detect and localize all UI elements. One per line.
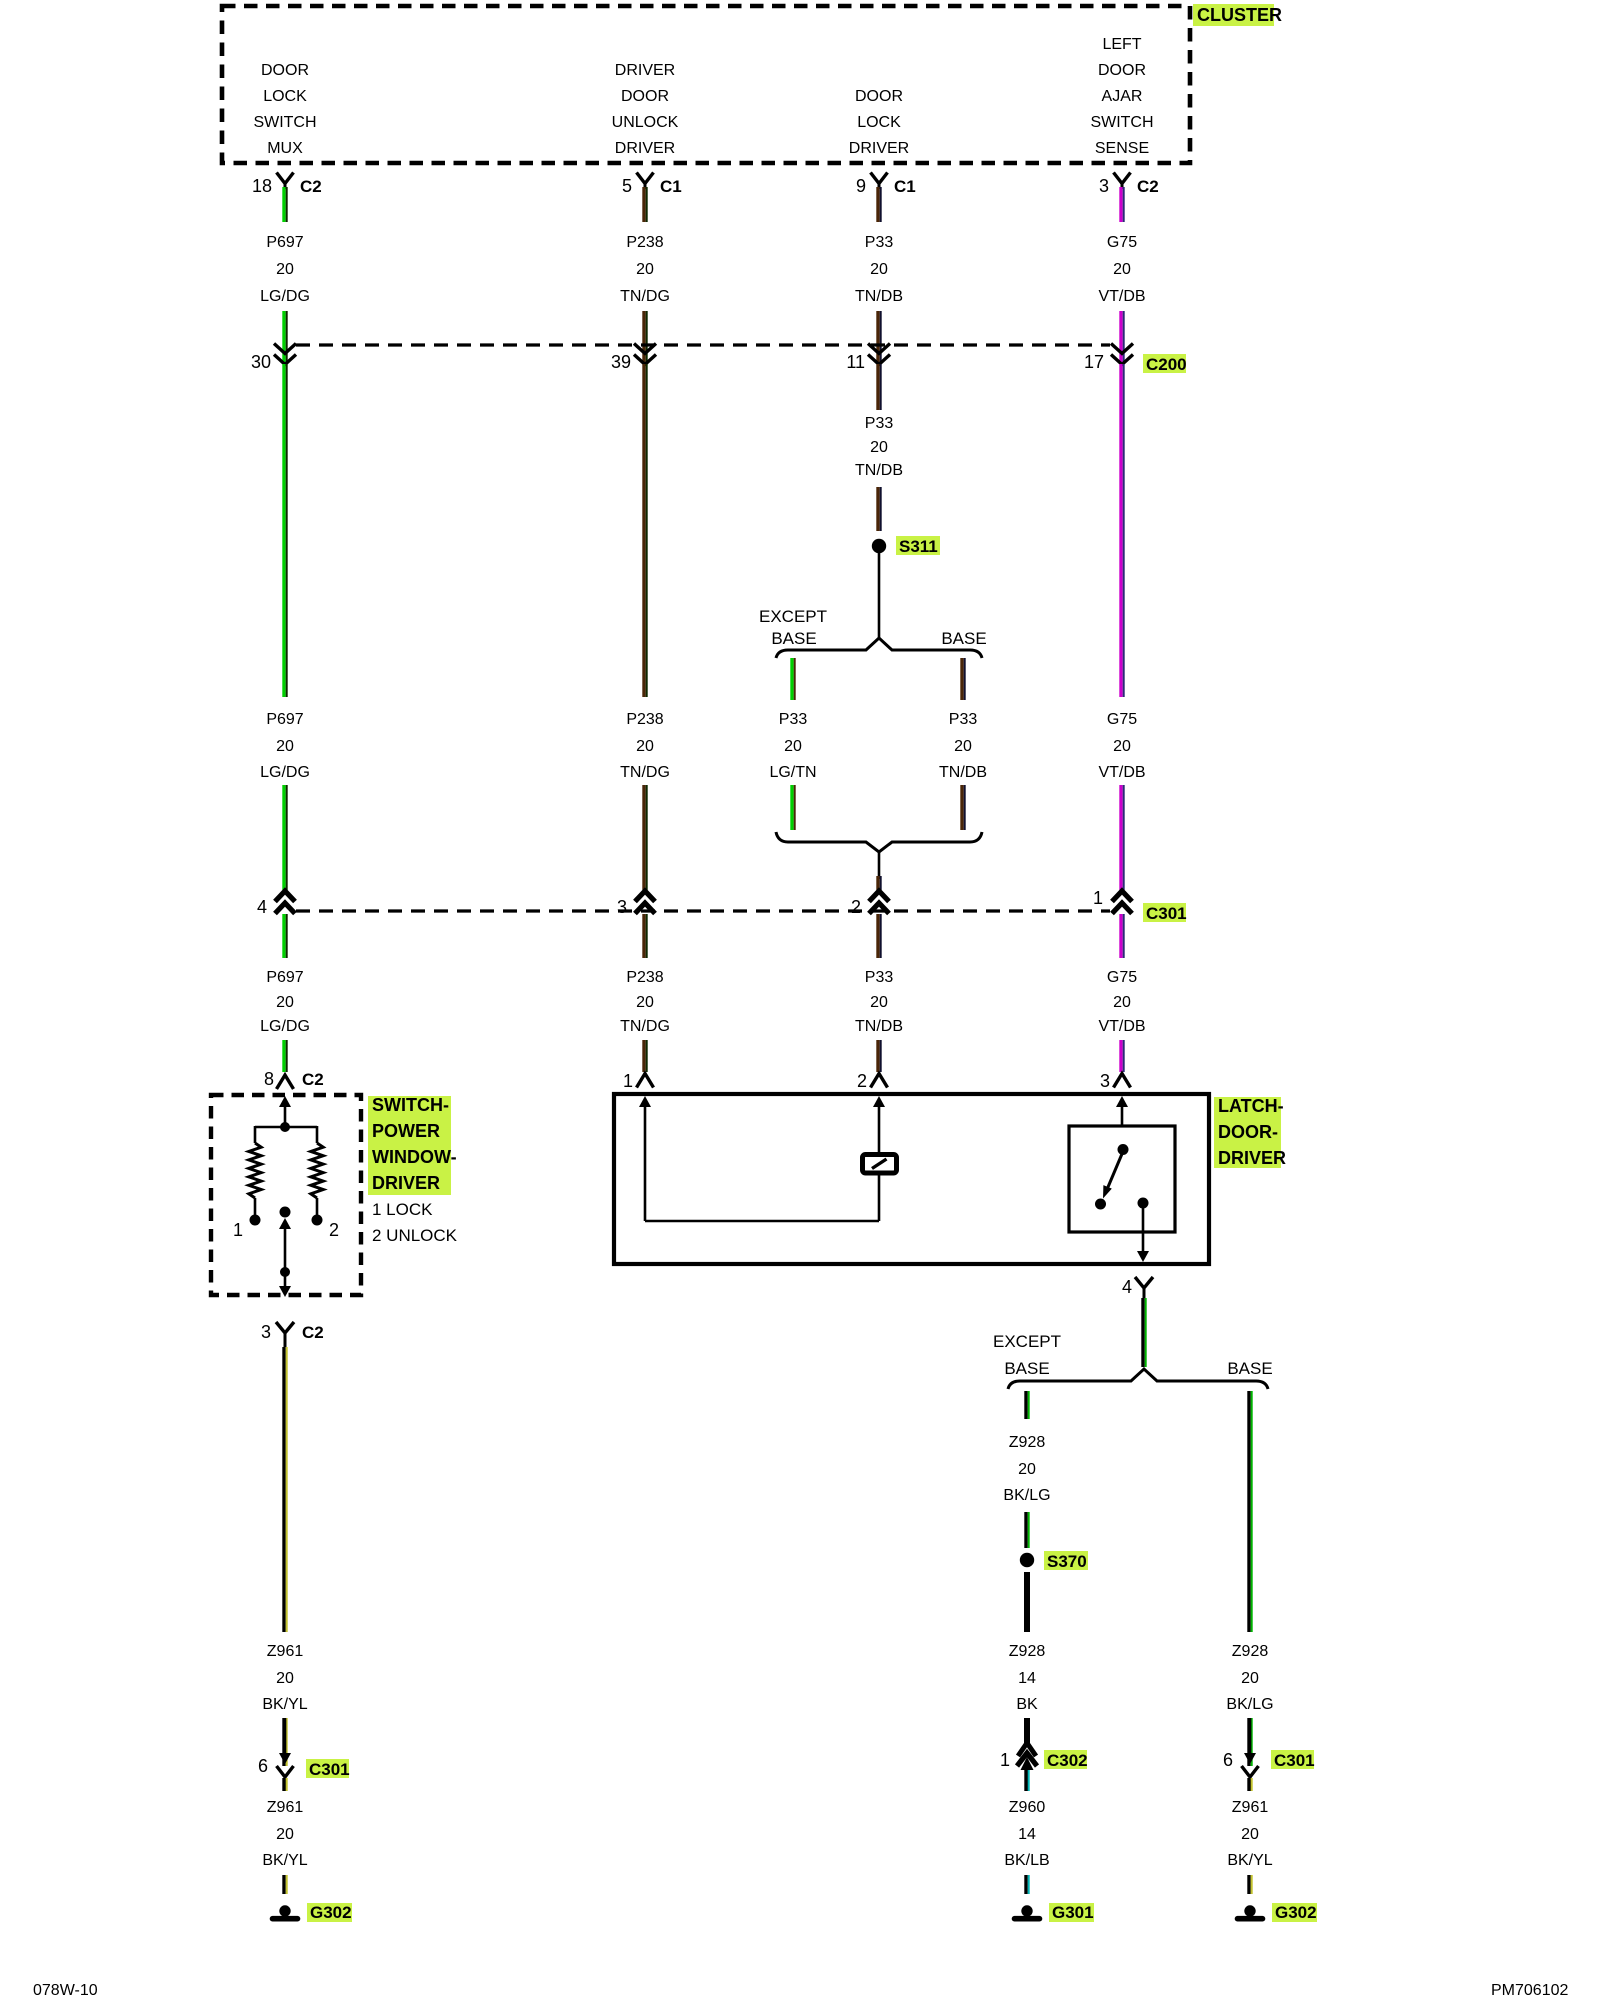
svg-text:LEFT: LEFT	[1102, 36, 1141, 53]
svg-text:20: 20	[1018, 1461, 1036, 1478]
latch pin 1 connector	[623, 1071, 654, 1091]
wire P697 segment	[282, 1040, 287, 1072]
label Z961 20 BK/YL	[1227, 1799, 1272, 1869]
connector C200 pin 39	[611, 344, 656, 373]
connector label C200	[1143, 354, 1187, 374]
svg-text:20: 20	[276, 1826, 294, 1843]
switch label SWITCH-POWER WINDOW-DRIVER	[368, 1095, 457, 1195]
svg-text:SWITCH-: SWITCH-	[372, 1095, 449, 1115]
svg-text:P33: P33	[865, 415, 894, 432]
wire P33 LG/TN branch segment	[790, 785, 795, 830]
label P33 20 LG/TN	[769, 711, 816, 781]
svg-text:20: 20	[1241, 1670, 1259, 1687]
branch label BASE	[1227, 1359, 1272, 1378]
cluster pin name: LEFT DOOR AJAR SWITCH SENSE	[1090, 36, 1153, 157]
svg-text:P238: P238	[626, 711, 663, 728]
svg-text:8: 8	[264, 1069, 274, 1089]
svg-text:BASE: BASE	[771, 629, 816, 648]
svg-text:DRIVER: DRIVER	[849, 140, 909, 157]
svg-text:SENSE: SENSE	[1095, 140, 1149, 157]
label P33 20 TN/DB	[939, 711, 987, 781]
label P697 20 LG/DG	[260, 711, 310, 781]
svg-text:G302: G302	[1275, 1903, 1317, 1922]
wire P33 LG/TN branch segment	[790, 658, 795, 700]
branch merge brace	[776, 832, 982, 852]
svg-text:5: 5	[622, 176, 632, 196]
wire G75 segment	[1119, 785, 1124, 890]
svg-text:4: 4	[257, 897, 267, 917]
svg-text:BK/LG: BK/LG	[1226, 1696, 1273, 1713]
svg-text:DOOR: DOOR	[621, 88, 669, 105]
wire Z928 14 BK segment	[1024, 1718, 1030, 1743]
label Z928 14 BK	[1009, 1643, 1046, 1713]
svg-text:G75: G75	[1107, 234, 1137, 251]
switch wiper junction	[280, 1267, 290, 1277]
svg-text:20: 20	[784, 738, 802, 755]
connector C301 pin 4	[257, 891, 295, 917]
wire P697 segment	[282, 914, 287, 958]
connector C200 dashed line	[296, 343, 1110, 346]
branch brace	[1008, 1369, 1268, 1389]
svg-text:BK/YL: BK/YL	[262, 1852, 307, 1869]
svg-text:BK/YL: BK/YL	[1227, 1852, 1272, 1869]
svg-text:BK: BK	[1016, 1696, 1038, 1713]
label Z961 20 BK/YL	[262, 1799, 307, 1869]
latch output arrow	[1137, 1251, 1149, 1262]
switch output arrow	[279, 1286, 291, 1297]
svg-text:DRIVER: DRIVER	[615, 140, 675, 157]
ground G302 (left)	[273, 1903, 353, 1922]
label Z928 20 BK/LG	[1226, 1643, 1273, 1713]
connector C301 pin 1	[1093, 888, 1132, 914]
wire P33 segment	[876, 311, 881, 364]
connector C301 dashed line	[296, 909, 1110, 912]
svg-text:PM706102: PM706102	[1491, 1982, 1568, 1999]
latch-door-driver box	[614, 1094, 1209, 1264]
wire Z961 segment	[1247, 1778, 1252, 1791]
svg-text:S370: S370	[1047, 1552, 1087, 1571]
svg-text:G302: G302	[310, 1903, 352, 1922]
svg-text:TN/DB: TN/DB	[855, 462, 903, 479]
latch internal bus	[645, 1173, 879, 1221]
wire P33 TN/DB branch segment	[960, 658, 965, 700]
label Z960 14 BK/LB	[1004, 1799, 1049, 1869]
latch pin2 arrow	[873, 1096, 885, 1153]
wire P697 segment	[282, 364, 287, 697]
svg-text:BK/LB: BK/LB	[1004, 1852, 1049, 1869]
label G75 20 VT/DB	[1098, 969, 1145, 1035]
cluster pin name: DOOR LOCK DRIVER	[849, 88, 909, 157]
svg-text:6: 6	[258, 1756, 268, 1776]
svg-text:BASE: BASE	[1004, 1359, 1049, 1378]
wire P697 segment	[282, 311, 287, 364]
wire P238 segment	[642, 785, 647, 890]
svg-text:MUX: MUX	[267, 140, 303, 157]
svg-text:20: 20	[636, 738, 654, 755]
svg-text:1: 1	[1000, 1750, 1010, 1770]
wire Z960 segment	[1024, 1875, 1029, 1894]
svg-text:G75: G75	[1107, 969, 1137, 986]
svg-text:BASE: BASE	[1227, 1359, 1272, 1378]
label P238 20 TN/DG	[620, 711, 670, 781]
branch label BASE	[941, 629, 986, 648]
svg-text:TN/DB: TN/DB	[939, 764, 987, 781]
latch switch output wire	[1142, 1203, 1145, 1253]
svg-text:C301: C301	[1146, 904, 1187, 923]
svg-text:P697: P697	[266, 969, 303, 986]
label P697 20 LG/DG	[260, 969, 310, 1035]
switch internal bus wire	[255, 1126, 317, 1129]
wire P238 segment	[642, 311, 647, 364]
label P33 20 TN/DB	[855, 969, 903, 1035]
label G75 20 VT/DB	[1098, 234, 1145, 305]
svg-text:C301: C301	[309, 1760, 350, 1779]
wire Z928 segment	[1141, 1298, 1146, 1367]
svg-text:17: 17	[1084, 352, 1104, 372]
svg-text:C1: C1	[894, 177, 916, 196]
svg-text:C302: C302	[1047, 1751, 1088, 1770]
svg-text:11: 11	[846, 352, 865, 372]
svg-text:30: 30	[251, 352, 271, 372]
svg-text:20: 20	[954, 738, 972, 755]
svg-text:078W-10: 078W-10	[33, 1982, 98, 1999]
wire Z928 segment	[1024, 1391, 1029, 1419]
wire Z961 segment	[282, 1778, 287, 1791]
svg-text:20: 20	[870, 439, 888, 456]
wire Z960 segment	[1024, 1770, 1029, 1791]
svg-text:LOCK: LOCK	[857, 114, 901, 131]
svg-text:LG/DG: LG/DG	[260, 288, 310, 305]
switch wiper contact	[280, 1207, 291, 1218]
connector C200 pin 30	[251, 344, 296, 373]
wire P238 segment	[642, 914, 647, 958]
svg-text:1: 1	[1093, 888, 1103, 908]
connector C1 pin 5	[622, 173, 682, 197]
latch pin3 arrow	[1116, 1096, 1128, 1126]
connector C200 pin 17	[1084, 344, 1133, 373]
svg-text:2: 2	[329, 1220, 339, 1240]
wire P33 segment	[876, 364, 881, 410]
svg-text:DRIVER: DRIVER	[372, 1173, 440, 1193]
wire resistor to terminal 2	[316, 1198, 319, 1215]
svg-text:DOOR: DOOR	[261, 62, 309, 79]
label P33 20 TN/DB	[855, 415, 903, 479]
svg-text:BK/LG: BK/LG	[1003, 1487, 1050, 1504]
svg-text:LG/DG: LG/DG	[260, 764, 310, 781]
connector C301 pin 6 (right)	[1223, 1718, 1315, 1791]
svg-text:BK/YL: BK/YL	[262, 1696, 307, 1713]
svg-text:VT/DB: VT/DB	[1098, 764, 1145, 781]
wire Z928 14 BK segment	[1024, 1572, 1030, 1632]
svg-text:LG/DG: LG/DG	[260, 1018, 310, 1035]
connector C301 pin 3	[617, 891, 655, 917]
svg-text:1: 1	[233, 1220, 243, 1240]
wire from brace to C301	[876, 852, 881, 890]
connector C2 pin 8	[264, 1069, 324, 1089]
svg-text:1: 1	[623, 1071, 633, 1091]
svg-text:TN/DG: TN/DG	[620, 288, 670, 305]
svg-text:2: 2	[857, 1071, 867, 1091]
sheet reference PM706102	[1491, 1982, 1568, 1999]
latch switch box	[1069, 1126, 1175, 1232]
svg-text:20: 20	[276, 738, 294, 755]
svg-text:SWITCH: SWITCH	[1090, 114, 1153, 131]
wire resistor to terminal 1	[254, 1198, 257, 1215]
wire G75 segment	[1119, 364, 1124, 697]
latch switch left contact	[1095, 1199, 1106, 1210]
svg-text:VT/DB: VT/DB	[1098, 1018, 1145, 1035]
connector C1 pin 9	[856, 173, 916, 197]
wire P33 segment	[876, 914, 881, 958]
sheet reference 078W-10	[33, 1982, 98, 1999]
svg-text:EXCEPT: EXCEPT	[993, 1332, 1061, 1351]
svg-text:20: 20	[1113, 261, 1131, 278]
svg-text:Z960: Z960	[1009, 1799, 1046, 1816]
svg-text:20: 20	[276, 1670, 294, 1687]
wire P697 segment	[282, 785, 287, 890]
latch motor element	[863, 1155, 897, 1174]
svg-text:Z961: Z961	[267, 1799, 304, 1816]
svg-text:CLUSTER: CLUSTER	[1197, 5, 1282, 25]
svg-text:TN/DB: TN/DB	[855, 1018, 903, 1035]
wire Z928 segment	[1024, 1512, 1029, 1548]
latch switch blade	[1103, 1152, 1123, 1199]
svg-text:POWER: POWER	[372, 1121, 440, 1141]
ground G302 (right)	[1238, 1903, 1318, 1922]
svg-text:P238: P238	[626, 969, 663, 986]
svg-text:TN/DB: TN/DB	[855, 288, 903, 305]
svg-text:C2: C2	[300, 177, 322, 196]
switch legend 1 LOCK 2 UNLOCK	[372, 1200, 458, 1245]
wire P238 segment	[642, 187, 647, 222]
wire P33 TN/DB branch segment	[960, 785, 965, 830]
wire P697 segment	[282, 187, 287, 222]
svg-text:DRIVER: DRIVER	[615, 62, 675, 79]
svg-text:20: 20	[1241, 1826, 1259, 1843]
connector C301 pin 2	[851, 891, 889, 917]
svg-text:4: 4	[1122, 1277, 1132, 1297]
svg-text:39: 39	[611, 352, 631, 372]
label P238 20 TN/DG	[620, 234, 670, 305]
svg-text:G301: G301	[1052, 1903, 1094, 1922]
svg-text:VT/DB: VT/DB	[1098, 288, 1145, 305]
svg-text:14: 14	[1018, 1826, 1036, 1843]
switch output wire	[284, 1272, 287, 1288]
ground G301	[1015, 1903, 1095, 1922]
splice S311	[872, 536, 940, 556]
branch label EXCEPT BASE	[759, 607, 827, 648]
latch switch output contact	[1138, 1198, 1149, 1209]
svg-text:2 UNLOCK: 2 UNLOCK	[372, 1226, 458, 1245]
switch-power window-driver dashed box	[211, 1095, 361, 1295]
svg-text:LG/TN: LG/TN	[769, 764, 816, 781]
wire P33 segment	[876, 487, 881, 531]
wire G75 segment	[1119, 1040, 1124, 1072]
svg-text:DOOR: DOOR	[855, 88, 903, 105]
latch pin 4 connector	[1122, 1277, 1153, 1298]
svg-text:SWITCH: SWITCH	[253, 114, 316, 131]
svg-text:3: 3	[1100, 1071, 1110, 1091]
latch pin1 arrow	[639, 1096, 651, 1221]
wire to unlock resistor	[316, 1126, 319, 1143]
svg-text:Z928: Z928	[1009, 1643, 1046, 1660]
svg-text:AJAR: AJAR	[1102, 88, 1143, 105]
label Z961 20 BK/YL	[262, 1643, 307, 1713]
cluster pin name: DRIVER DOOR UNLOCK DRIVER	[612, 62, 679, 157]
label P238 20 TN/DG	[620, 969, 670, 1035]
svg-text:BASE: BASE	[941, 629, 986, 648]
svg-text:C1: C1	[660, 177, 682, 196]
svg-text:G75: G75	[1107, 711, 1137, 728]
latch pin 2 connector	[857, 1071, 888, 1091]
branch brace	[776, 638, 982, 658]
switch junction node	[280, 1122, 290, 1132]
wire Z928 segment	[1247, 1391, 1252, 1632]
resistor (unlock side)	[311, 1143, 323, 1198]
cluster label CLUSTER	[1193, 4, 1282, 26]
svg-text:1 LOCK: 1 LOCK	[372, 1200, 433, 1219]
svg-text:9: 9	[856, 176, 866, 196]
svg-text:UNLOCK: UNLOCK	[612, 114, 679, 131]
wire to lock resistor	[254, 1126, 257, 1143]
branch label EXCEPT BASE	[993, 1332, 1061, 1378]
svg-text:C2: C2	[302, 1070, 324, 1089]
label Z928 20 BK/LG	[1003, 1434, 1050, 1504]
latch label LATCH-DOOR-DRIVER	[1214, 1096, 1286, 1168]
label P33 20 TN/DB	[855, 234, 903, 305]
cluster pin name: DOOR LOCK SWITCH MUX	[253, 62, 316, 157]
label P697 20 LG/DG	[260, 234, 310, 305]
svg-text:Z961: Z961	[1232, 1799, 1269, 1816]
wire Z961 segment	[282, 1718, 287, 1766]
svg-text:DRIVER: DRIVER	[1218, 1148, 1286, 1168]
svg-text:Z928: Z928	[1009, 1434, 1046, 1451]
svg-text:P33: P33	[865, 969, 894, 986]
wire G75 segment	[1119, 311, 1124, 364]
switch wiper arrow	[279, 1218, 291, 1272]
switch input arrow	[279, 1096, 291, 1127]
connector C301 pin 6 (left)	[258, 1718, 350, 1791]
terminal 2 contact	[312, 1215, 340, 1241]
svg-text:WINDOW-: WINDOW-	[372, 1147, 457, 1167]
svg-text:P33: P33	[865, 234, 894, 251]
resistor (lock side)	[249, 1143, 261, 1198]
svg-text:C301: C301	[1274, 1751, 1315, 1770]
svg-text:3: 3	[261, 1322, 271, 1342]
wire Z961 segment	[1247, 1875, 1252, 1894]
wire P238 segment	[642, 1040, 647, 1072]
svg-text:20: 20	[870, 261, 888, 278]
wire P33 segment	[876, 1040, 881, 1072]
connector C2 pin 3 (switch output)	[261, 1322, 324, 1347]
svg-text:P697: P697	[266, 234, 303, 251]
svg-text:Z961: Z961	[267, 1643, 304, 1660]
svg-text:6: 6	[1223, 1750, 1233, 1770]
wire G75 segment	[1119, 187, 1124, 222]
svg-text:S311: S311	[899, 537, 938, 556]
wire Z928 segment	[1247, 1718, 1252, 1766]
wire from S311 to branch brace	[878, 553, 881, 640]
svg-text:20: 20	[636, 994, 654, 1011]
splice S370	[1020, 1551, 1088, 1571]
cluster (instrument cluster) dashed box	[222, 6, 1190, 163]
svg-text:20: 20	[636, 261, 654, 278]
svg-text:EXCEPT: EXCEPT	[759, 607, 827, 626]
svg-text:20: 20	[870, 994, 888, 1011]
wire G75 segment	[1119, 914, 1124, 958]
svg-text:20: 20	[1113, 738, 1131, 755]
svg-text:TN/DG: TN/DG	[620, 764, 670, 781]
connector C2 pin 3	[1099, 173, 1159, 197]
wire Z961 segment	[282, 1347, 287, 1632]
svg-text:C2: C2	[1137, 177, 1159, 196]
svg-text:P33: P33	[949, 711, 978, 728]
svg-text:LOCK: LOCK	[263, 88, 307, 105]
svg-text:P238: P238	[626, 234, 663, 251]
latch switch common contact	[1118, 1144, 1129, 1155]
label G75 20 VT/DB	[1098, 711, 1145, 781]
wire Z961 segment	[282, 1875, 287, 1894]
svg-text:20: 20	[276, 261, 294, 278]
svg-text:2: 2	[851, 897, 861, 917]
svg-text:3: 3	[617, 897, 627, 917]
svg-text:C200: C200	[1146, 355, 1187, 374]
terminal 1 contact	[233, 1215, 261, 1241]
svg-text:DOOR-: DOOR-	[1218, 1122, 1278, 1142]
svg-text:P33: P33	[779, 711, 808, 728]
latch pin 3 connector	[1100, 1071, 1131, 1091]
connector C2 pin 18	[252, 173, 322, 197]
svg-text:P697: P697	[266, 711, 303, 728]
svg-text:TN/DG: TN/DG	[620, 1018, 670, 1035]
connector C200 pin 11	[846, 344, 890, 373]
svg-text:3: 3	[1099, 176, 1109, 196]
connector label C301	[1143, 903, 1187, 923]
svg-text:20: 20	[1113, 994, 1131, 1011]
wire P33 segment	[876, 187, 881, 222]
svg-text:Z928: Z928	[1232, 1643, 1269, 1660]
svg-text:DOOR: DOOR	[1098, 62, 1146, 79]
svg-text:LATCH-: LATCH-	[1218, 1096, 1284, 1116]
svg-text:18: 18	[252, 176, 272, 196]
connector C302 pin 1	[1000, 1743, 1088, 1791]
svg-text:14: 14	[1018, 1670, 1036, 1687]
svg-text:C2: C2	[302, 1323, 324, 1342]
wire P238 segment	[642, 364, 647, 697]
svg-text:20: 20	[276, 994, 294, 1011]
